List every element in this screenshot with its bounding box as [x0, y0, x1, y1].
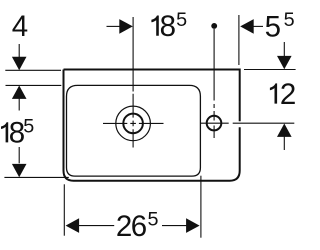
svg-text:2: 2	[280, 78, 296, 111]
svg-text:5: 5	[176, 9, 187, 31]
svg-text:8: 8	[160, 10, 176, 43]
svg-text:5: 5	[265, 11, 281, 44]
svg-text:5: 5	[148, 208, 159, 230]
svg-text:5: 5	[284, 9, 295, 31]
svg-text:4: 4	[12, 10, 28, 43]
svg-text:6: 6	[131, 210, 147, 243]
svg-text:5: 5	[23, 116, 34, 138]
